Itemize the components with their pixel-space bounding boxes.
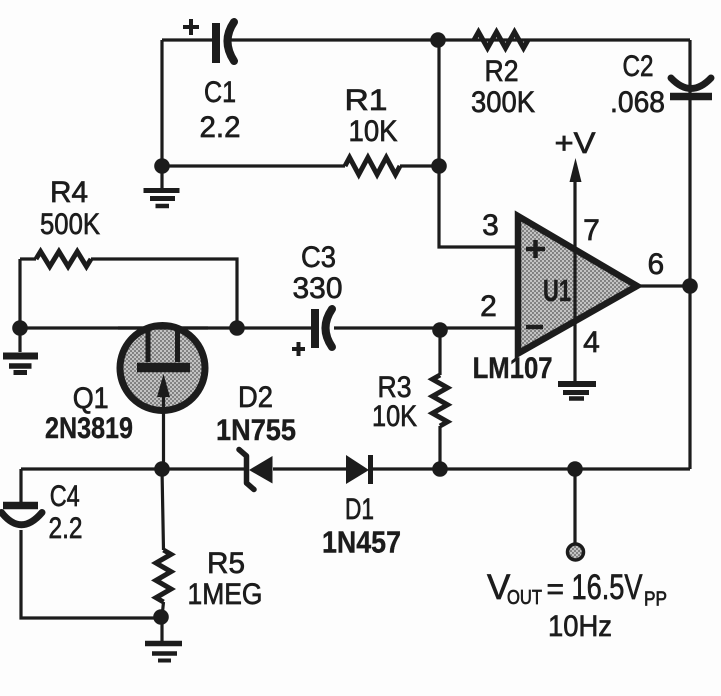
- svg-text:C2: C2: [623, 50, 654, 83]
- label D2: [216, 381, 296, 447]
- svg-text:C3: C3: [301, 241, 336, 274]
- label C2: [610, 50, 665, 119]
- svg-text:OUT: OUT: [507, 587, 542, 609]
- svg-text:4: 4: [583, 326, 600, 359]
- svg-text:10K: 10K: [349, 115, 398, 148]
- node R4 left: [12, 320, 28, 336]
- svg-text:+V: +V: [555, 127, 596, 160]
- pin 2: [480, 290, 497, 323]
- label R1: [345, 84, 398, 148]
- output terminal: [568, 544, 584, 560]
- capacitor C3: [292, 309, 332, 356]
- node at C1/ground: [154, 158, 170, 174]
- ground G3 op-amp pin4: [558, 384, 596, 399]
- pin 3: [482, 209, 499, 242]
- pin 6: [647, 248, 664, 281]
- label 10Hz: [548, 610, 612, 643]
- diode D1 1N457: [346, 455, 371, 484]
- svg-text:1N755: 1N755: [216, 414, 296, 447]
- svg-text:500K: 500K: [40, 208, 100, 241]
- node R3 top: [432, 322, 448, 338]
- capacitor C1: [183, 19, 234, 63]
- svg-text:C1: C1: [204, 76, 236, 109]
- wire R5 vertical: [162, 469, 164, 617]
- transistor Q1: [118, 326, 208, 470]
- wire output stub: [573, 469, 576, 543]
- ground G2 left: [3, 328, 38, 373]
- svg-text:=: =: [547, 573, 565, 606]
- svg-text:2: 2: [480, 290, 497, 323]
- label C4: [49, 480, 83, 545]
- op-amp U1: [518, 182, 637, 382]
- resistor R4: [36, 252, 91, 267]
- svg-text:R4: R4: [50, 176, 88, 209]
- wire R3 vertical: [438, 330, 441, 469]
- node R3 bottom: [432, 461, 448, 477]
- label C3: [293, 241, 343, 305]
- svg-text:C4: C4: [50, 480, 80, 513]
- svg-text:3: 3: [482, 209, 499, 242]
- wire op-amp output: [637, 284, 690, 287]
- label LM107: [473, 352, 553, 385]
- label C1: [200, 76, 241, 144]
- wire top horizontal: [162, 38, 690, 41]
- node output stub: [567, 461, 583, 477]
- label D1: [322, 493, 401, 560]
- resistor R1: [345, 158, 400, 175]
- svg-text:2.2: 2.2: [200, 111, 241, 144]
- svg-text:PP: PP: [644, 589, 667, 611]
- wire R1 row: [162, 164, 439, 167]
- capacitor C4: [2, 506, 43, 525]
- pin 4: [583, 326, 600, 359]
- wire node to pin3 vertical: [439, 40, 519, 247]
- pin 7: [583, 214, 600, 247]
- svg-text:330: 330: [293, 272, 343, 305]
- svg-text:7: 7: [583, 214, 600, 247]
- svg-text:R5: R5: [207, 547, 245, 580]
- wire middle row right: [334, 326, 519, 329]
- label R2: [471, 55, 535, 119]
- diode D2 zener 1N755: [239, 450, 273, 490]
- svg-text:R1: R1: [345, 84, 388, 117]
- node R4 right: [229, 320, 245, 336]
- svg-text:16.5V: 16.5V: [572, 568, 644, 607]
- label R3: [372, 371, 417, 433]
- svg-text:Q1: Q1: [73, 382, 109, 415]
- ground G1 below C1 node: [144, 167, 180, 206]
- label R4: [40, 176, 100, 241]
- node R1 right: [431, 158, 447, 174]
- resistor R2: [474, 32, 528, 48]
- label R5: [188, 547, 263, 611]
- svg-text:6: 6: [647, 248, 664, 281]
- svg-text:300K: 300K: [471, 86, 535, 119]
- svg-text:2N3819: 2N3819: [45, 412, 133, 445]
- svg-text:U1: U1: [543, 273, 571, 308]
- label Vout: [487, 568, 667, 611]
- wire R4 right vertical: [91, 259, 237, 328]
- label Q1: [45, 382, 133, 445]
- resistor R5: [156, 550, 171, 602]
- svg-text:R2: R2: [485, 55, 519, 88]
- svg-text:D2: D2: [238, 381, 273, 414]
- wire right vertical: [688, 40, 691, 469]
- wire C4 loop: [21, 469, 161, 618]
- resistor R3: [433, 375, 448, 426]
- wire bottom row: [21, 467, 690, 470]
- wire top-left vertical: [160, 40, 163, 167]
- node top R2: [430, 32, 446, 48]
- node R5 bottom: [153, 609, 169, 625]
- svg-text:.068: .068: [610, 86, 665, 119]
- wire middle row left: [20, 326, 311, 329]
- ground G4 below R5: [145, 617, 182, 661]
- +V supply arrow: [555, 127, 596, 182]
- svg-text:10K: 10K: [372, 400, 417, 433]
- label U1: [543, 273, 571, 308]
- svg-text:1N457: 1N457: [322, 525, 401, 560]
- wire R4 left vertical: [20, 259, 36, 328]
- svg-text:LM107: LM107: [473, 352, 553, 385]
- node gate/bottom: [154, 461, 170, 477]
- svg-text:10Hz: 10Hz: [548, 610, 612, 643]
- svg-text:2.2: 2.2: [49, 512, 83, 545]
- svg-text:1MEG: 1MEG: [188, 578, 263, 611]
- svg-text:D1: D1: [345, 493, 374, 526]
- node output: [682, 278, 698, 294]
- capacitor C2: [670, 78, 712, 97]
